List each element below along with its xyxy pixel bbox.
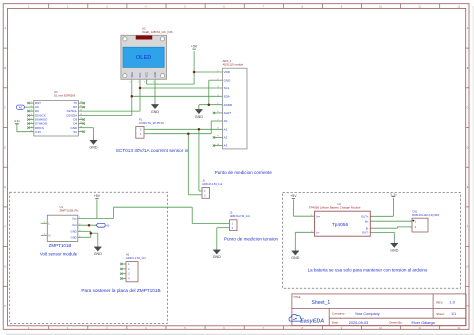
svg-text:5: 5 [44,221,45,223]
svg-text:Elver Galarga: Elver Galarga [412,321,436,325]
svg-text:A0: A0 [224,119,228,123]
svg-text:4: 4 [153,81,154,83]
svg-text:H: H [4,305,6,308]
svg-text:+5V: +5V [94,194,101,198]
svg-text:Sheet_1: Sheet_1 [312,300,331,306]
svg-text:12: 12 [80,118,82,120]
svg-text:OUT-: OUT- [362,231,369,235]
svg-text:Date:: Date: [332,321,339,325]
svg-text:TITLE:: TITLE: [293,295,301,299]
svg-text:7: 7 [31,126,32,128]
svg-text:1: 1 [31,102,32,104]
svg-text:10: 10 [80,126,82,128]
svg-text:C: C [467,107,469,110]
svg-text:In-: In- [316,230,319,234]
svg-text:G: G [4,265,6,268]
svg-text:G: G [467,265,469,268]
svg-text:+5V: +5V [290,194,297,198]
svg-text:In+: In+ [316,214,320,218]
svg-text:SCT013 30V/1A courrent sensor: SCT013 30V/1A courrent sensor in [116,148,189,153]
svg-text:5V: 5V [74,130,78,134]
svg-text:Punto de medicion tension: Punto de medicion tension [224,237,279,242]
svg-text:HDR-M-2.54_1x2: HDR-M-2.54_1x2 [230,214,251,218]
svg-text:Para sostener la placa del ZMP: Para sostener la placa del ZMPT101B [81,288,160,293]
svg-text:ZMPT101B: ZMPT101B [49,243,72,248]
svg-text:VCC: VCC [145,72,149,78]
svg-text:N: N [49,233,51,237]
svg-text:D: D [467,146,469,149]
svg-text:5: 5 [31,118,32,120]
svg-text:SDA: SDA [224,94,230,98]
svg-text:ADDR: ADDR [224,103,233,107]
svg-text:CN1: CN1 [412,211,418,214]
svg-text:GND: GND [94,252,103,256]
svg-text:D1 mini ESP8266: D1 mini ESP8266 [54,93,76,97]
svg-text:CONN-TH_2P-P5.00: CONN-TH_2P-P5.00 [139,121,165,125]
svg-text:15: 15 [80,106,82,108]
svg-text:SDA: SDA [130,72,134,78]
svg-text:Sheet:: Sheet: [436,312,445,316]
svg-text:ZMPT101B_Plc: ZMPT101B_Plc [60,208,79,212]
svg-text:4: 4 [31,114,32,116]
svg-text:GND: GND [71,235,77,239]
svg-text:B+: B+ [365,219,369,223]
svg-text:3: 3 [144,81,145,83]
svg-text:6: 6 [44,233,45,235]
svg-text:HDR-F-2.54_1x4: HDR-F-2.54_1x4 [126,256,146,260]
svg-text:U2: U2 [142,27,146,31]
svg-text:3.3v: 3.3v [14,119,20,123]
svg-text:ADS_1: ADS_1 [223,59,233,63]
svg-text:GND: GND [390,249,399,253]
svg-text:P1: P1 [139,118,143,122]
svg-text:GND: GND [195,115,204,119]
svg-text:EasyEDA: EasyEDA [300,318,324,324]
svg-text:ADS1115 module: ADS1115 module [223,62,244,66]
svg-text:GND: GND [153,72,157,78]
svg-text:U1: U1 [60,205,64,209]
svg-text:D: D [4,146,6,149]
svg-text:GND: GND [213,255,222,259]
svg-text:1.0: 1.0 [450,300,456,305]
svg-text:REV:: REV: [436,300,443,304]
svg-text:13: 13 [80,114,82,116]
svg-text:16: 16 [80,102,82,104]
svg-text:3_3v: 3_3v [390,192,397,196]
svg-text:Tp4056: Tp4056 [332,222,349,228]
svg-text:3.3V: 3.3V [35,130,41,134]
svg-text:Vcc: Vcc [72,217,77,221]
svg-text:2: 2 [138,81,139,83]
svg-text:1/1: 1/1 [451,312,456,316]
svg-text:ALRT: ALRT [224,111,232,115]
svg-text:GND: GND [151,110,160,114]
svg-text:GND: GND [291,256,300,260]
svg-text:1: 1 [129,81,130,83]
svg-text:4: 4 [79,236,80,238]
svg-text:A3: A3 [224,144,228,148]
svg-text:2: 2 [79,224,80,226]
svg-text:OLED_128X64_I2C_0.96: OLED_128X64_I2C_0.96 [142,30,173,34]
svg-text:3: 3 [31,110,32,112]
svg-text:1: 1 [79,217,80,219]
svg-text:La bateria se usa solo para ma: La bateria se usa solo para mantener con… [308,268,428,273]
svg-text:OUT+: OUT+ [361,214,369,218]
svg-text:+5V: +5V [191,45,198,49]
svg-text:8: 8 [31,130,32,132]
svg-text:11: 11 [80,122,82,124]
svg-text:Company:: Company: [332,312,345,316]
svg-text:2020-09-03: 2020-09-03 [349,321,368,325]
svg-text:GND: GND [224,78,232,82]
svg-text:Punto de medicion corriente: Punto de medicion corriente [215,170,273,175]
svg-text:6: 6 [31,122,32,124]
svg-text:U3: U3 [54,90,58,94]
svg-text:SCL: SCL [138,72,142,78]
svg-text:SCL: SCL [224,86,230,90]
svg-text:TP4056 Lithium Battery Charger: TP4056 Lithium Battery Charger Module [309,206,361,210]
svg-text:GND: GND [71,229,77,233]
svg-text:H: H [467,305,469,308]
svg-text:A2: A2 [224,136,228,140]
svg-text:Drawn By:: Drawn By: [389,321,403,325]
svg-text:2: 2 [311,230,312,232]
svg-text:Volt sensor module: Volt sensor module [40,251,78,256]
svg-text:14: 14 [80,110,82,112]
svg-text:VDD: VDD [224,70,231,74]
svg-text:A1: A1 [224,127,228,131]
svg-text:C: C [4,107,6,110]
svg-text:HDR-M-2.54_1x2: HDR-M-2.54_1x2 [202,182,223,186]
svg-text:OLED: OLED [136,55,152,61]
svg-text:9: 9 [80,130,81,132]
svg-text:3: 3 [79,230,80,232]
svg-text:BOB-301-AM (LF)/(SN): BOB-301-AM (LF)/(SN) [412,213,439,217]
svg-text:1: 1 [311,214,312,216]
svg-text:Your Company: Your Company [355,312,380,316]
svg-text:GND: GND [89,146,98,150]
svg-text:Out: Out [72,223,77,227]
